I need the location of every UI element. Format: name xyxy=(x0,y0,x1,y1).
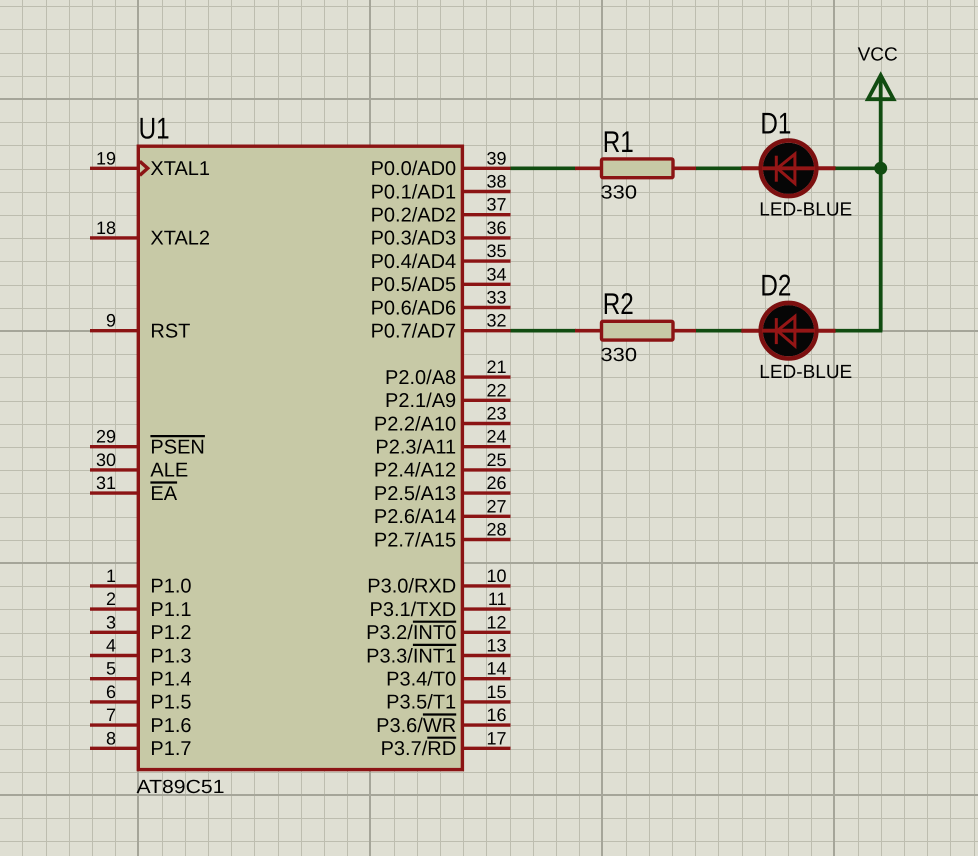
junction dot node xyxy=(874,162,887,175)
svg-text:P0.2/AD2: P0.2/AD2 xyxy=(371,205,457,227)
pin 24 P2.3/A11 xyxy=(375,427,510,459)
wire R1 input xyxy=(511,167,577,171)
pin 26 P2.5/A13 xyxy=(374,473,511,505)
svg-text:P1.2: P1.2 xyxy=(150,622,191,644)
svg-text:5: 5 xyxy=(106,659,116,679)
svg-text:P0.1/AD1: P0.1/AD1 xyxy=(371,181,457,203)
svg-text:P1.5: P1.5 xyxy=(150,692,191,714)
led D2 LED-BLUE xyxy=(741,303,835,359)
svg-text:27: 27 xyxy=(486,496,506,516)
pin 21 P2.0/A8 xyxy=(385,357,510,389)
pin 35 P0.4/AD4 xyxy=(371,241,511,273)
svg-text:25: 25 xyxy=(486,450,506,470)
svg-text:D2: D2 xyxy=(760,270,791,303)
svg-text:11: 11 xyxy=(488,589,507,609)
pin 30 ALE xyxy=(90,450,188,482)
svg-text:P1.4: P1.4 xyxy=(150,669,191,691)
svg-text:9: 9 xyxy=(106,311,116,331)
pin 3 P1.2 xyxy=(90,612,192,644)
pin 37 P0.2/AD2 xyxy=(371,195,511,227)
pin 12 P3.2/INT0 xyxy=(366,612,510,644)
svg-text:39: 39 xyxy=(486,148,506,168)
pin 22 P2.1/A9 xyxy=(385,380,510,412)
pin 17 P3.7/RD xyxy=(381,728,511,760)
svg-text:P2.1/A9: P2.1/A9 xyxy=(385,390,456,412)
svg-text:34: 34 xyxy=(486,264,506,284)
svg-text:17: 17 xyxy=(486,728,506,748)
pin 11 P3.1/TXD xyxy=(369,589,510,621)
pin 15 P3.5/T1 xyxy=(386,682,510,714)
svg-text:P1.3: P1.3 xyxy=(150,645,191,667)
pin 32 P0.7/AD7 xyxy=(371,311,511,343)
svg-text:P1.7: P1.7 xyxy=(150,738,191,760)
pin 29 PSEN xyxy=(90,427,205,459)
pin 16 P3.6/WR xyxy=(376,705,510,737)
svg-text:D1: D1 xyxy=(760,107,791,140)
svg-text:31: 31 xyxy=(96,473,116,493)
wire VCC rail vertical xyxy=(879,76,883,331)
svg-text:P2.0/A8: P2.0/A8 xyxy=(385,367,456,389)
svg-text:LED-BLUE: LED-BLUE xyxy=(759,362,852,383)
svg-text:15: 15 xyxy=(486,682,506,702)
svg-text:28: 28 xyxy=(486,520,506,540)
svg-text:P1.6: P1.6 xyxy=(150,715,191,737)
svg-text:P0.0/AD0: P0.0/AD0 xyxy=(371,158,457,180)
svg-text:1: 1 xyxy=(106,566,116,586)
pin 7 P1.6 xyxy=(90,705,192,737)
wire R2 input xyxy=(511,329,577,333)
svg-text:13: 13 xyxy=(486,636,506,656)
resistor R1 xyxy=(575,159,697,178)
svg-text:P2.3/A11: P2.3/A11 xyxy=(375,437,456,459)
svg-text:P0.3/AD3: P0.3/AD3 xyxy=(371,228,457,250)
pin 5 P1.4 xyxy=(90,659,192,691)
ic U1 AT89C51 body xyxy=(138,146,462,769)
svg-text:P3.3/INT1: P3.3/INT1 xyxy=(366,645,456,667)
svg-text:P3.5/T1: P3.5/T1 xyxy=(386,692,456,714)
svg-text:24: 24 xyxy=(486,427,506,447)
resistor R2 xyxy=(575,321,697,340)
XTAL1 input marker xyxy=(140,161,148,175)
pin 25 P2.4/A12 xyxy=(374,450,511,482)
svg-text:21: 21 xyxy=(486,357,506,377)
svg-text:P3.0/RXD: P3.0/RXD xyxy=(367,576,456,598)
svg-text:29: 29 xyxy=(96,427,116,447)
pin 1 P1.0 xyxy=(90,566,192,598)
pin 8 P1.7 xyxy=(90,728,192,760)
svg-text:P3.2/INT0: P3.2/INT0 xyxy=(366,622,456,644)
svg-text:330: 330 xyxy=(601,345,638,366)
pin 23 P2.2/A10 xyxy=(374,404,511,436)
svg-text:XTAL2: XTAL2 xyxy=(150,228,210,250)
svg-text:18: 18 xyxy=(96,218,116,238)
svg-text:P3.1/TXD: P3.1/TXD xyxy=(369,599,456,621)
wire R2 to D2 xyxy=(696,329,742,333)
svg-text:2: 2 xyxy=(106,589,116,609)
svg-text:26: 26 xyxy=(486,473,506,493)
svg-text:P3.4/T0: P3.4/T0 xyxy=(386,669,456,691)
svg-text:32: 32 xyxy=(486,311,506,331)
svg-text:35: 35 xyxy=(486,241,506,261)
svg-text:16: 16 xyxy=(486,705,506,725)
svg-text:23: 23 xyxy=(486,404,506,424)
svg-text:3: 3 xyxy=(106,612,116,632)
svg-text:ALE: ALE xyxy=(150,460,188,482)
svg-text:4: 4 xyxy=(106,636,116,656)
svg-text:VCC: VCC xyxy=(858,44,898,65)
svg-text:33: 33 xyxy=(486,288,506,308)
svg-text:19: 19 xyxy=(96,148,116,168)
svg-text:LED-BLUE: LED-BLUE xyxy=(759,200,852,221)
wire R1 to D1 xyxy=(696,167,742,171)
svg-text:AT89C51: AT89C51 xyxy=(137,777,225,798)
svg-text:P0.7/AD7: P0.7/AD7 xyxy=(371,321,457,343)
svg-text:30: 30 xyxy=(96,450,116,470)
svg-text:37: 37 xyxy=(486,195,506,215)
svg-text:330: 330 xyxy=(601,182,638,203)
led D1 LED-BLUE xyxy=(741,141,835,197)
svg-text:EA: EA xyxy=(150,483,177,505)
svg-text:PSEN: PSEN xyxy=(150,437,204,459)
svg-text:36: 36 xyxy=(486,218,506,238)
pin 31 EA xyxy=(90,473,178,505)
wire D1 to VCC rail xyxy=(836,167,883,171)
pin 4 P1.3 xyxy=(90,636,192,668)
pin 2 P1.1 xyxy=(90,589,192,621)
svg-text:P0.4/AD4: P0.4/AD4 xyxy=(371,251,457,273)
pin 34 P0.5/AD5 xyxy=(371,264,511,296)
svg-text:RST: RST xyxy=(150,321,190,343)
svg-text:P1.0: P1.0 xyxy=(150,576,191,598)
pin 14 P3.4/T0 xyxy=(386,659,510,691)
pin 6 P1.5 xyxy=(90,682,192,714)
VCC power symbol xyxy=(868,75,894,99)
svg-text:P2.2/A10: P2.2/A10 xyxy=(374,413,456,435)
svg-text:P3.7/RD: P3.7/RD xyxy=(381,738,457,760)
svg-text:U1: U1 xyxy=(139,112,170,145)
svg-text:P3.6/WR: P3.6/WR xyxy=(376,715,456,737)
pin 9 RST xyxy=(90,311,190,343)
svg-text:R2: R2 xyxy=(603,288,634,321)
pin 10 P3.0/RXD xyxy=(367,566,510,598)
svg-text:XTAL1: XTAL1 xyxy=(150,158,210,180)
svg-text:7: 7 xyxy=(106,705,116,725)
pin 19 XTAL1 xyxy=(90,148,210,180)
pin 36 P0.3/AD3 xyxy=(371,218,511,250)
pin 13 P3.3/INT1 xyxy=(366,636,510,668)
svg-text:P2.7/A15: P2.7/A15 xyxy=(374,529,456,551)
pin 38 P0.1/AD1 xyxy=(371,172,511,204)
svg-text:38: 38 xyxy=(486,172,506,192)
pin 18 XTAL2 xyxy=(90,218,210,250)
svg-text:P1.1: P1.1 xyxy=(150,599,191,621)
svg-text:P2.4/A12: P2.4/A12 xyxy=(374,460,456,482)
svg-text:R1: R1 xyxy=(603,126,634,159)
pin 28 P2.7/A15 xyxy=(374,520,511,552)
svg-text:8: 8 xyxy=(106,728,116,748)
svg-text:P0.5/AD5: P0.5/AD5 xyxy=(371,274,457,296)
pin 33 P0.6/AD6 xyxy=(371,288,511,320)
svg-text:P2.5/A13: P2.5/A13 xyxy=(374,483,456,505)
pin 27 P2.6/A14 xyxy=(374,496,511,528)
svg-text:10: 10 xyxy=(486,566,506,586)
svg-text:P0.6/AD6: P0.6/AD6 xyxy=(371,297,457,319)
svg-text:22: 22 xyxy=(486,380,506,400)
pin 39 P0.0/AD0 xyxy=(371,148,511,180)
wire D2 to VCC rail xyxy=(836,329,883,333)
svg-text:P2.6/A14: P2.6/A14 xyxy=(374,506,456,528)
svg-text:14: 14 xyxy=(486,659,506,679)
svg-text:6: 6 xyxy=(106,682,116,702)
svg-text:12: 12 xyxy=(486,612,506,632)
